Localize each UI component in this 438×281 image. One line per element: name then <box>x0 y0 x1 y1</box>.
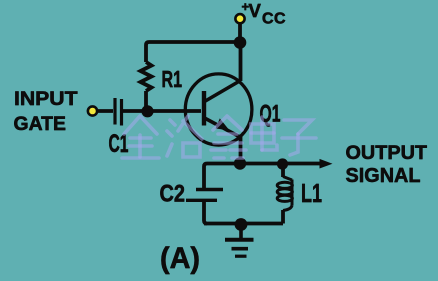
wire: R1 bottom to base junction <box>144 91 148 111</box>
svg-text:INPUT: INPUT <box>14 88 78 110</box>
wire: base junction to transistor base <box>147 109 201 113</box>
wire: C2 bottom to ground wire <box>204 202 207 224</box>
svg-text:R1: R1 <box>162 66 183 92</box>
svg-text:OUTPUT: OUTPUT <box>346 142 428 164</box>
junction: top (VCC node) <box>234 36 247 49</box>
wire: L1 bottom stub <box>281 210 285 224</box>
char xin <box>211 116 246 158</box>
char luo <box>167 116 202 157</box>
wire: L1 top stub <box>281 164 285 177</box>
wire: collector vertical (junction to transistor) <box>239 42 243 81</box>
wire: top junction left and down to R1 top <box>146 42 240 62</box>
wire: input terminal to C1 <box>96 109 113 113</box>
junction: emitter node <box>234 157 246 169</box>
svg-text:GATE: GATE <box>14 113 67 135</box>
wire: VCC terminal down to top junction <box>238 22 242 42</box>
junction: tank/output node <box>277 158 288 169</box>
terminal: input (yellow) <box>88 106 97 115</box>
watermark 金洛鑫电子 <box>122 116 316 158</box>
svg-text:L1: L1 <box>301 178 322 208</box>
svg-text:CC: CC <box>262 11 286 28</box>
char zi <box>282 120 316 155</box>
resistor R1 <box>141 62 152 91</box>
emitter arrowhead <box>216 118 230 130</box>
terminal: VCC (yellow) <box>235 14 244 23</box>
wire: emitter junction left to C2 top <box>204 164 240 189</box>
label +VCC <box>242 0 286 28</box>
junction: ground node <box>235 218 248 231</box>
svg-text:V: V <box>249 0 262 21</box>
capacitor C2 plates <box>186 190 223 201</box>
inductor L1 <box>277 177 292 211</box>
output arrowhead <box>320 159 333 169</box>
wire: emitter junction to output arrow <box>240 162 323 166</box>
svg-text:(A): (A) <box>160 242 200 275</box>
char dian <box>251 117 277 150</box>
char jin <box>122 116 159 158</box>
svg-text:C2: C2 <box>160 180 186 207</box>
wire: emitter vertical (transistor to emitter junction) <box>239 137 243 165</box>
capacitor C1 plates <box>115 98 122 126</box>
wire: C1 to base junction <box>123 109 147 113</box>
wire: bottom horizontal C2 to L1 <box>204 222 283 226</box>
junction: base node <box>141 105 153 117</box>
svg-text:SIGNAL: SIGNAL <box>346 164 421 187</box>
ground <box>225 228 254 256</box>
transistor Q1 <box>185 74 252 145</box>
